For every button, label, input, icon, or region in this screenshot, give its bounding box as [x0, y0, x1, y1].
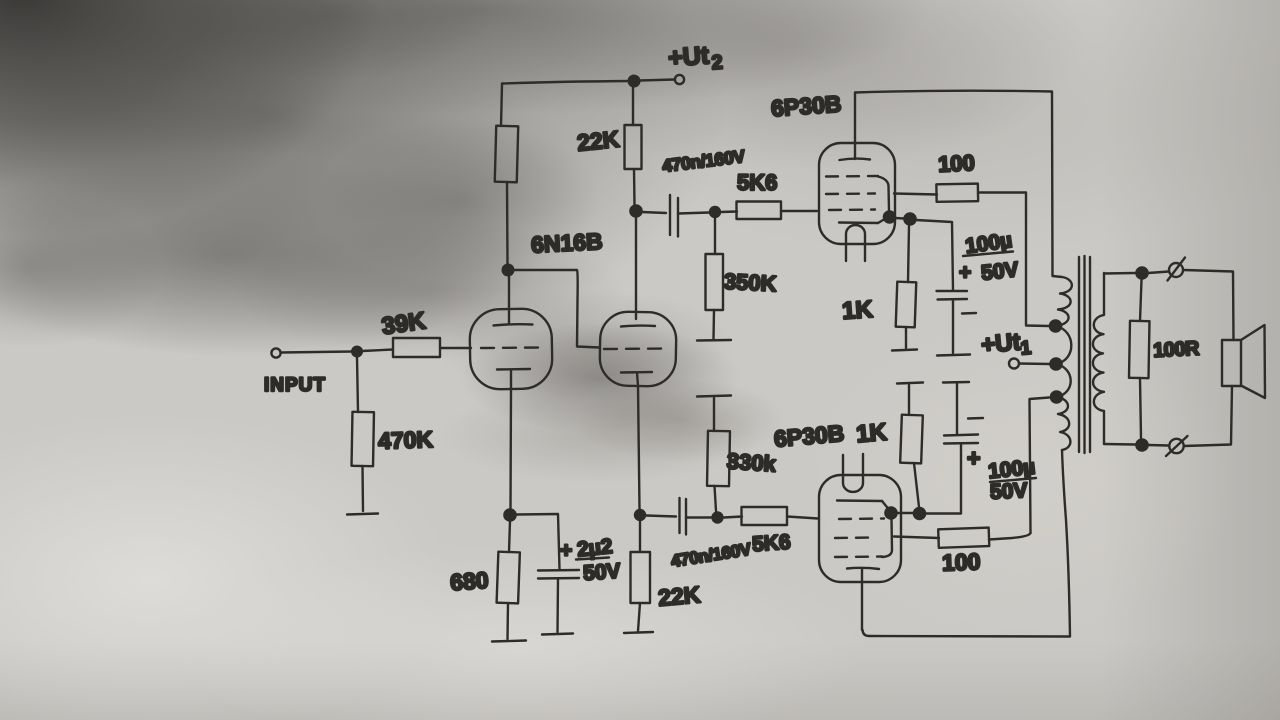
pentode V2 screen grid (dashed) — [826, 192, 875, 195]
label 1K top — [841, 296, 874, 325]
resistor R 330k grid leak bottom — [707, 398, 730, 511]
wire node to output terminal top — [1148, 272, 1169, 274]
terminal output bottom (circle with slash) — [1166, 436, 1188, 456]
wire node to output terminal bottom — [1148, 444, 1168, 447]
resistor R 350K grid leak top — [706, 219, 724, 340]
resistor R 5K6 top — [721, 202, 817, 220]
wire node to capacitor C 470n top — [642, 212, 666, 213]
wire V2 plate to transformer primary top — [855, 91, 1062, 277]
svg-text:680: 680 — [449, 567, 489, 596]
wire primary bottom to V3 plate run — [863, 450, 1071, 637]
svg-text:100: 100 — [937, 150, 975, 177]
transformer core laminations — [1079, 256, 1090, 453]
svg-text:6P30B: 6P30B — [773, 420, 845, 452]
svg-text:5K6: 5K6 — [737, 170, 777, 195]
wire capacitor to node N2 — [678, 213, 709, 214]
wire input to node — [281, 352, 352, 353]
wire terminal to speaker side (bottom) — [1184, 386, 1232, 446]
capacitor C 470n/160V bottom — [680, 498, 687, 535]
node primary center tap D2 — [1049, 357, 1063, 371]
label 6N16B — [530, 228, 603, 258]
resistor R 100 screen top — [894, 184, 1026, 202]
resistor R 5K6 bottom — [724, 507, 818, 525]
ground bar above 1K bottom — [897, 383, 923, 384]
node secondary top — [1135, 266, 1149, 280]
terminal +Ut1 — [1009, 359, 1019, 369]
svg-text:2: 2 — [711, 51, 724, 74]
resistor R 22K (V1b plate load) — [625, 87, 642, 205]
label 100 top — [937, 150, 975, 177]
node input junction — [351, 346, 363, 358]
resistor R 1K bottom — [900, 385, 923, 507]
svg-text:+: + — [959, 261, 971, 284]
label 100u/50V top — [959, 229, 1020, 285]
svg-text:350K: 350K — [723, 269, 777, 297]
wire center tap to +Ut1 terminal — [1019, 362, 1050, 365]
node primary tap D1 (screen top) — [1049, 319, 1063, 333]
capacitor C 2u2/50V — [538, 570, 579, 632]
svg-text:22K: 22K — [657, 581, 702, 611]
wire secondary bottom rail — [1104, 443, 1135, 446]
pentode V3 base pip (top) — [843, 454, 863, 492]
wire K1 to K2 — [895, 217, 904, 220]
label +Ut2 — [667, 41, 723, 74]
terminal +Ut2 — [675, 75, 684, 84]
pentode V2 base pip — [846, 225, 865, 261]
wire cathode node to capacitor C 470n bottom — [646, 516, 676, 517]
ground bar below 22K — [624, 632, 653, 633]
svg-text:470n/160V: 470n/160V — [670, 539, 753, 571]
label 5K6 top — [737, 170, 777, 195]
resistor R 680 — [497, 521, 520, 639]
node V3 cathode K3 — [884, 506, 898, 520]
wire node to +Ut2 terminal — [640, 80, 674, 81]
triode V1b plate — [621, 324, 655, 327]
pentode V2 grid3 (dashed) with beam hook — [826, 176, 889, 211]
triode V1a 6N16B envelope — [469, 308, 552, 389]
wire cathode node to capacitor 2u2 — [517, 514, 560, 569]
node V1a plate — [502, 264, 515, 277]
pentode V3 6P30B bottom envelope — [819, 475, 901, 582]
pentode V2 control grid (dashed) — [829, 208, 875, 211]
node V1b plate / coupling — [629, 204, 643, 218]
svg-text:+Ut: +Ut — [980, 329, 1022, 359]
ground bar below 100u top — [937, 355, 970, 356]
capacitor C 470n/160V top — [670, 195, 678, 237]
svg-text:470K: 470K — [378, 426, 434, 454]
node secondary bottom — [1135, 438, 1149, 452]
ground bar below 470K — [347, 514, 378, 515]
pentode V3 beam hook — [882, 519, 892, 557]
label 680 — [449, 567, 489, 596]
svg-text:+Ut: +Ut — [667, 41, 711, 72]
pentode V2 cathode — [839, 218, 887, 223]
wire K2 to capacitor 100u top — [916, 220, 953, 290]
label 22K bottom — [657, 581, 702, 611]
svg-text:22K: 22K — [576, 126, 621, 156]
node V2 cathode K2 — [903, 212, 917, 226]
wire terminal to speaker side (top) — [1184, 270, 1234, 340]
terminal output top (circle with slash) — [1168, 258, 1186, 281]
label 6P30B bottom — [773, 420, 845, 452]
svg-text:1K: 1K — [855, 419, 889, 449]
wire +Ut2 rail top — [502, 81, 633, 84]
node V3 cathode K4 — [913, 507, 927, 521]
pentode V3 screen grid (dashed) — [835, 536, 876, 539]
resistor R 39K — [362, 338, 471, 357]
label 1K bottom — [855, 419, 889, 449]
ground bar above 100u bottom — [943, 381, 969, 384]
label minus bottom cap — [968, 417, 983, 420]
triode V1a plate — [494, 270, 533, 326]
svg-text:1K: 1K — [841, 296, 874, 325]
label +Ut1 — [980, 329, 1033, 360]
svg-text:1: 1 — [1020, 338, 1033, 360]
label 22K — [576, 126, 621, 156]
label 330k — [726, 448, 777, 476]
svg-text:39K: 39K — [380, 307, 428, 340]
label 5K6 bottom — [751, 531, 791, 557]
ground bar below 680 — [492, 641, 526, 642]
label 100 bottom — [942, 548, 981, 575]
svg-text:100R: 100R — [1153, 338, 1201, 362]
label 470n/160V bottom — [670, 539, 753, 571]
resistor R 100R secondary load — [1129, 280, 1149, 438]
triode V1b 6N16B envelope — [599, 311, 676, 386]
resistor R 22K cathode (bottom) — [631, 521, 651, 631]
wire coupling node down to V1b plate — [635, 218, 637, 319]
wire capacitor to node N5 — [687, 516, 711, 518]
ground bar above 330k — [697, 396, 731, 397]
pentode V3 plate — [847, 568, 879, 630]
svg-text:6N16B: 6N16B — [530, 228, 603, 258]
node N2 top grid network — [709, 206, 721, 218]
capacitor C 100u/50V top — [937, 291, 968, 353]
svg-text:470n/160V: 470n/160V — [661, 146, 746, 176]
node primary tap D3 (screen bottom) — [1050, 390, 1064, 404]
label +2u2/50V — [560, 535, 621, 585]
svg-text:5K6: 5K6 — [751, 531, 791, 557]
svg-text:+: + — [967, 445, 980, 471]
speaker horn — [1241, 325, 1265, 398]
wire screen top to transformer tap D1 — [1026, 193, 1049, 326]
label 470K — [378, 426, 434, 454]
label plus bottom cap — [967, 445, 980, 471]
label 39K — [380, 307, 428, 340]
wire screen bottom to transformer tap D3 — [1030, 398, 1050, 534]
label 100R — [1153, 338, 1201, 362]
label 6P30B top — [770, 90, 842, 121]
terminal INPUT — [271, 348, 280, 357]
svg-text:+: + — [560, 539, 572, 562]
svg-text:50V: 50V — [989, 479, 1028, 504]
wire V1a plate to V1b grid — [508, 270, 599, 348]
ground bar below 350K — [697, 339, 731, 342]
label 100u/50V bottom — [987, 456, 1036, 504]
ground bar below 2u2 — [542, 634, 573, 635]
svg-text:100: 100 — [942, 548, 981, 575]
node +Ut2 junction — [628, 75, 641, 88]
wire secondary top rail — [1104, 272, 1135, 275]
node V1a cathode — [503, 508, 517, 522]
label 470n/160V top — [661, 146, 746, 176]
node N5 bottom grid network — [711, 511, 723, 523]
speaker driver — [1222, 340, 1241, 386]
svg-text:6P30B: 6P30B — [770, 90, 842, 121]
triode V1b cathode — [621, 372, 652, 509]
node V2 cathode K1 — [883, 210, 897, 224]
pentode V2 plate — [840, 93, 871, 160]
svg-text:50V: 50V — [980, 258, 1020, 285]
pentode V3 control grid (dashed) — [839, 517, 884, 520]
transformer secondary winding — [1093, 273, 1104, 444]
triode V1a cathode — [497, 369, 530, 509]
pentode V3 cathode — [837, 501, 889, 510]
wire K3 to K4 — [897, 512, 913, 514]
label minus top cap — [962, 312, 976, 315]
svg-text:330k: 330k — [726, 448, 777, 476]
pentode V3 grid3 (dashed) — [835, 555, 882, 558]
node V1b cathode — [634, 509, 646, 521]
resistor R 470K input — [352, 357, 374, 511]
triode V1b grid (dashed) — [604, 347, 668, 350]
label INPUT — [264, 375, 326, 396]
ground bar below 1K top — [892, 350, 917, 351]
svg-text:INPUT: INPUT — [264, 375, 326, 396]
label 350K — [723, 269, 777, 297]
wire K4 to capacitor 100u bottom — [926, 445, 961, 514]
resistor R 1K top — [896, 225, 917, 348]
resistor plate load of V1a (left, unlabeled) — [495, 84, 518, 264]
resistor R 100 screen bottom — [894, 528, 1031, 548]
transformer primary winding — [1056, 277, 1072, 450]
triode V1a grid (dashed) — [481, 346, 541, 349]
pentode V2 6P30B top envelope — [819, 143, 895, 244]
svg-text:50V: 50V — [582, 560, 621, 586]
capacitor C 100u/50V bottom — [944, 384, 978, 444]
